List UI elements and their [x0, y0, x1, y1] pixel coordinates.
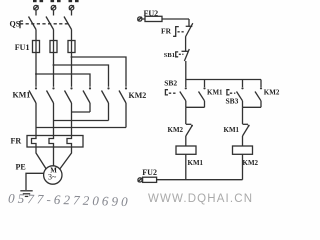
svg-text:FU2: FU2	[142, 168, 157, 177]
wire phase2 down to KM1 pole2	[53, 53, 55, 87]
contactor KM2 main contact 1	[83, 87, 91, 112]
fuse FU1 pole 2	[50, 41, 57, 53]
wire KM2 pole3 to KM1 pole1 output	[36, 127, 126, 129]
svg-text:FR: FR	[161, 27, 172, 36]
svg-text:SB3: SB3	[226, 97, 239, 106]
button SB1 dashes	[179, 53, 184, 55]
wire PE to motor	[26, 173, 44, 190]
node L1 (cut label)	[33, 0, 43, 2]
contactor KM1 main contact 1	[29, 87, 37, 135]
svg-text:WWW.DQHAI.CN: WWW.DQHAI.CN	[148, 193, 253, 205]
svg-text:PE: PE	[16, 163, 26, 172]
wire L1 to FU1	[35, 30, 37, 41]
button SB3 dashes	[230, 92, 236, 94]
terminal L2	[51, 5, 56, 10]
svg-text:SB2: SB2	[164, 78, 177, 87]
svg-text:3~: 3~	[48, 173, 57, 182]
switch QS linkage bracket	[20, 21, 23, 28]
wire bottom rail	[157, 179, 243, 181]
coil KM2	[233, 146, 253, 154]
contactor KM1 main contact 3	[65, 87, 73, 135]
thermal relay FR element 2	[49, 136, 54, 148]
contact KM1 aux (NO)	[199, 80, 206, 108]
wire FR to motor middle	[53, 147, 55, 166]
switch QS linkage dashed line	[20, 23, 69, 25]
contact KM2 aux (NO)	[255, 80, 262, 108]
wire crossover phase1 to KM2 pole1	[36, 74, 90, 87]
wire FR to SB1	[185, 37, 187, 51]
junction phase2	[53, 64, 55, 66]
fuse FU2 bottom	[142, 177, 157, 182]
terminal L1	[34, 5, 39, 10]
wire branch1 rejoin	[186, 106, 205, 108]
node L3 (cut label)	[69, 0, 79, 2]
thermal contact FR dashes	[178, 31, 185, 33]
motor M 3~	[44, 166, 62, 184]
interlock KM1 (NC)	[243, 124, 250, 146]
wire L2 to FU1	[53, 30, 55, 41]
svg-text:KM1: KM1	[188, 159, 204, 167]
wire KM2 pole2 to KM1 pole2 output	[54, 120, 109, 122]
terminal control bottom	[138, 178, 142, 182]
wire branch2 rejoin	[243, 106, 262, 108]
wire crossover phase3 to KM2 pole3	[72, 57, 127, 87]
switch QS pole 2	[46, 10, 54, 30]
svg-text:KM2: KM2	[264, 89, 280, 97]
junction phase3	[71, 56, 73, 58]
wire L3 to FU1	[71, 30, 73, 41]
thermal relay FR element 1	[32, 136, 37, 148]
button SB1 actuator	[176, 52, 179, 57]
thermal relay FR element 3	[67, 136, 72, 148]
junction phase1	[35, 73, 37, 75]
coil KM1	[176, 146, 196, 154]
terminal control top	[138, 17, 142, 21]
wire phase3 down to KM1 pole3	[71, 53, 73, 87]
svg-text:KM2: KM2	[168, 126, 184, 134]
button SB2 actuator	[165, 90, 168, 95]
contactor KM2 main contact 2	[102, 87, 110, 120]
thermal contact FR (NC)	[185, 23, 192, 37]
wire phase1 down to KM1 pole1	[35, 53, 37, 87]
thermal relay FR box	[27, 136, 83, 148]
svg-text:FR: FR	[11, 137, 22, 146]
wire crossover phase2 to KM2 pole2	[54, 65, 109, 87]
switch QS pole 1	[29, 10, 37, 30]
wire branch1 down	[185, 107, 187, 124]
svg-text:0577-62720690: 0577-62720690	[8, 191, 131, 210]
svg-text:KM2: KM2	[129, 91, 147, 100]
svg-text:KM1: KM1	[13, 91, 31, 100]
svg-text:KM2: KM2	[243, 159, 259, 167]
wire KM2 pole1 to KM1 pole3 output	[72, 111, 91, 113]
button SB3 actuator	[227, 90, 230, 95]
wire FR to motor right	[60, 147, 72, 169]
wire control bus	[186, 79, 261, 81]
button SB3 (NO)	[237, 80, 244, 108]
node L2 (cut label)	[51, 0, 61, 2]
wire coil KM2 to rail	[242, 154, 244, 179]
svg-text:KM1: KM1	[224, 126, 240, 134]
contactor KM2 main contact 3	[119, 87, 127, 127]
svg-text:KM1: KM1	[207, 89, 223, 97]
switch QS pole 3	[64, 10, 72, 30]
wire SB1 to bus	[185, 61, 187, 80]
wire control rail down	[188, 19, 190, 26]
wire coil KM1 to rail	[185, 154, 187, 179]
interlock KM2 (NC)	[186, 124, 193, 146]
contactor KM1 main contact 2	[47, 87, 55, 135]
wire branch2 down	[242, 107, 244, 124]
fuse FU1 pole 1	[33, 41, 40, 53]
svg-text:QS: QS	[10, 20, 21, 29]
ground	[20, 191, 32, 197]
button SB1 (NC)	[182, 49, 190, 61]
svg-text:SB1: SB1	[164, 52, 175, 59]
terminal L3	[69, 5, 74, 10]
svg-text:FU1: FU1	[15, 43, 30, 52]
wire FR to motor left	[36, 147, 46, 169]
button SB2 (NO)	[180, 80, 187, 108]
fuse FU1 pole 3	[68, 41, 75, 53]
thermal contact FR hook	[173, 27, 179, 37]
fuse FU2 top	[142, 16, 189, 21]
button SB2 dashes	[169, 92, 177, 94]
